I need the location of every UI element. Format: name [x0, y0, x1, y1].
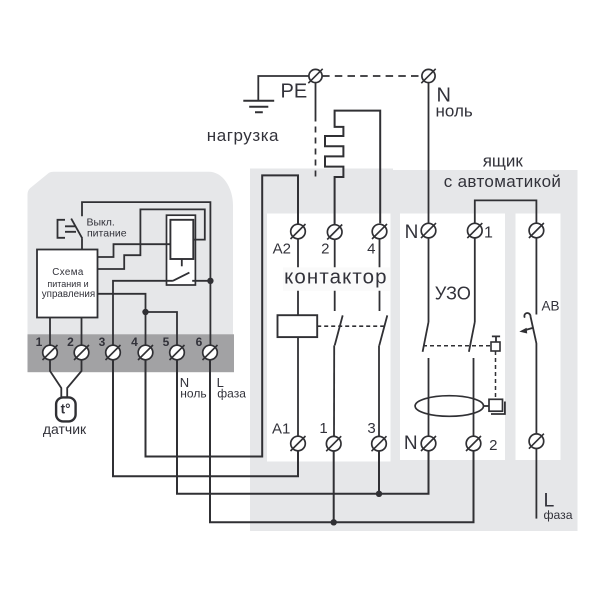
RCD pole N wire upper [428, 238, 430, 322]
wire: terminal 3 to contactor A1 [113, 360, 298, 476]
svg-text:2: 2 [321, 241, 329, 258]
terminal strip [28, 334, 235, 372]
contactor pole 3 wire lower [378, 345, 380, 436]
contactor bottom terminal 3 [372, 436, 387, 451]
svg-text:фаза: фаза [217, 387, 246, 401]
svg-text:контактор: контактор [284, 265, 388, 288]
wire: branch to terminal 5 [146, 312, 178, 345]
breaker top terminal [529, 223, 544, 238]
wire: PE to ground [258, 76, 309, 101]
junction dot at relay contact output [207, 278, 213, 284]
svg-text:2: 2 [67, 335, 74, 349]
svg-text:ноль: ноль [180, 387, 206, 401]
relay coil [170, 220, 193, 259]
contactor top terminal 4 [372, 224, 387, 239]
wire: control box to terminal 4 and branch to terminal 5 [98, 294, 146, 345]
wire: control box to terminal 2 [81, 318, 83, 346]
breaker wire upper [535, 238, 537, 315]
RCD pole 2 wire upper [474, 238, 476, 322]
wire: terminal 6 L to RCD bottom 2 [210, 360, 474, 523]
RCD pole N blade [423, 322, 429, 352]
breaker bottom terminal [529, 434, 544, 449]
terminal 5 [170, 345, 185, 360]
svg-text:питания и: питания и [47, 279, 88, 289]
svg-text:A1: A1 [272, 421, 290, 438]
svg-text:PE: PE [281, 81, 308, 103]
svg-text:УЗО: УЗО [435, 284, 471, 304]
svg-text:датчик: датчик [43, 421, 87, 437]
wire: top loop from power switch to relay contact and terminal 6 [82, 202, 210, 345]
contactor inner panel [267, 214, 391, 462]
wire: N down to RCD [428, 83, 430, 224]
contactor bottom terminal 1 [326, 436, 341, 451]
svg-text:t°: t° [61, 401, 71, 416]
junction dot contactor 1 input [331, 519, 337, 525]
power switch Выкл питание : blade [71, 219, 82, 239]
svg-text:5: 5 [163, 335, 170, 349]
wire: RCD 1 to breaker bridge [475, 200, 537, 223]
terminal 2 [74, 345, 89, 360]
breaker trip arrow head [519, 328, 527, 334]
heating element (load) between contactor outputs 2 and 4 [325, 111, 380, 225]
wire: terminal 4 to contactor A2 [146, 175, 299, 456]
svg-text:управления: управления [42, 289, 95, 300]
contactor pole 3 wire upper [379, 239, 381, 311]
svg-text:1: 1 [484, 225, 493, 242]
dashed wire: PE to N [322, 75, 421, 77]
control box Схема питания и управления [37, 250, 98, 318]
terminal 6 [203, 345, 218, 360]
RCD pole 2 blade [469, 322, 475, 352]
breaker release hook [524, 313, 530, 318]
svg-text:3: 3 [367, 420, 375, 437]
wire: PE down solid [315, 83, 317, 122]
svg-text:питание: питание [87, 227, 127, 239]
contactor pole 1 wire upper [297, 239, 299, 315]
contactor pole 2 wire upper [334, 239, 336, 311]
temperature sensor t° [56, 397, 76, 421]
contactor top terminal A2 [291, 224, 306, 239]
wire: contactor terminal 3 down to N line [378, 451, 380, 494]
wire: terminal 5 N to RCD bottom N [177, 360, 429, 494]
svg-text:4: 4 [367, 241, 375, 258]
wire: breaker bottom to L фаза [535, 449, 537, 519]
RCD top terminal 1 [467, 223, 482, 238]
dashed mechanical link coil to contacts [317, 325, 384, 327]
relay contact blade [173, 273, 190, 281]
breaker inner panel [516, 214, 561, 461]
wire: terminal 1 to sensor [50, 360, 61, 398]
svg-text:A2: A2 [273, 241, 291, 258]
differential transformer ring [415, 396, 483, 417]
svg-text:нагрузка: нагрузка [207, 126, 279, 145]
junction dot on terminal 4 wire [142, 309, 148, 315]
wire: control box staircase to relay coil right side [98, 209, 205, 269]
svg-text:N: N [404, 433, 418, 454]
automation box enclosure (grey) [393, 170, 578, 531]
terminal 4 [138, 345, 153, 360]
dashed wire: PE to load earth [315, 127, 317, 181]
svg-text:2: 2 [489, 437, 497, 454]
RCD pole N wire lower [428, 358, 430, 436]
svg-text:с автоматикой: с автоматикой [444, 172, 562, 191]
PE terminal [308, 69, 322, 83]
power switch: actuator bracket [58, 220, 66, 238]
RCD top terminal N [421, 223, 436, 238]
svg-text:1: 1 [319, 420, 327, 437]
svg-text:ноль: ноль [436, 102, 473, 121]
power switch: contact lines [65, 226, 76, 232]
test button cap [492, 336, 500, 342]
wire: terminal 2 to sensor [67, 360, 81, 398]
breaker wire lower [535, 341, 538, 434]
contactor pole 3 contact blade [379, 315, 387, 345]
release element [489, 399, 503, 411]
wire: control box to relay coil left side [98, 244, 171, 257]
breaker trip arrow shaft [524, 328, 534, 331]
wire: relay contact right to L line [192, 280, 210, 282]
relay coil actuator stem [181, 259, 183, 266]
wire: relay contact left to terminal 3 [113, 281, 173, 345]
RCD pole 2 wire lower [473, 358, 475, 436]
svg-text:1: 1 [36, 335, 43, 349]
relay K1 outer box [167, 215, 196, 285]
svg-text:АВ: АВ [542, 299, 560, 314]
contactor label band [283, 267, 390, 291]
wire: control box to terminal 1 [49, 318, 51, 346]
svg-text:3: 3 [99, 335, 106, 349]
contactor pole 1 wire lower [297, 337, 299, 436]
contactor pole 2 wire lower [333, 345, 335, 436]
terminal 1 [43, 345, 58, 360]
svg-text:6: 6 [196, 335, 203, 349]
release element shadow [491, 402, 505, 415]
RCD bottom terminal N [421, 436, 436, 451]
wire: contactor terminal 1 down to L line [333, 451, 335, 522]
power switch: wire to control box [81, 238, 83, 249]
svg-text:4: 4 [131, 335, 138, 349]
RCD bottom terminal 2 [466, 436, 481, 451]
link ring to release [484, 405, 490, 407]
contactor enclosure (grey) [250, 169, 393, 532]
terminal 3 [106, 345, 121, 360]
N supply terminal [421, 69, 435, 83]
svg-text:N: N [405, 222, 419, 243]
svg-text:фаза: фаза [544, 508, 573, 522]
svg-text:ящик: ящик [483, 152, 524, 171]
contactor bottom terminal A1 [291, 436, 306, 451]
junction dot contactor 3 output [376, 491, 382, 497]
svg-text:Схема: Схема [52, 267, 84, 278]
RCD inner panel [400, 214, 505, 461]
test button [491, 342, 500, 351]
dashed test link [423, 345, 491, 347]
breaker blade [530, 316, 536, 341]
contactor coil [278, 315, 318, 337]
ground symbol [243, 101, 274, 113]
contactor pole 2 contact blade [335, 315, 343, 345]
thermostat body [28, 172, 234, 368]
dashed link to release [495, 351, 497, 399]
contactor top terminal 2 [327, 225, 342, 240]
